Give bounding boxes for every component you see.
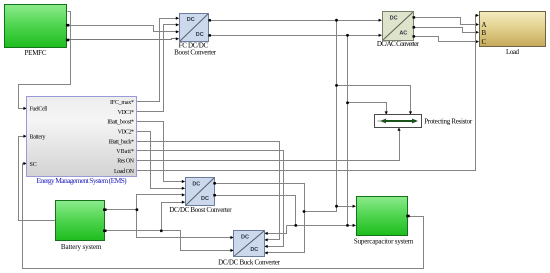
svg-text:B: B xyxy=(482,29,487,37)
wire EMS IBatt_boost* to DC/DC Boost port 1 xyxy=(137,122,184,182)
svg-text:AC: AC xyxy=(399,31,407,37)
svg-text:Protecting Resistor: Protecting Resistor xyxy=(424,118,473,126)
wire EMS VDC2* to DC/DC Boost port 2 xyxy=(137,132,184,189)
svg-text:DC/DC Buck Converter: DC/DC Buck Converter xyxy=(218,259,281,267)
wire PEMFC - output to FC converter port 4 xyxy=(68,39,178,40)
junction node bus + to resistor branch xyxy=(335,84,338,87)
wire DC bus + to Protecting Resistor top port 2 xyxy=(337,86,411,114)
block Battery system xyxy=(56,201,107,251)
svg-text:DC: DC xyxy=(250,247,258,253)
svg-text:Battery: Battery xyxy=(30,135,46,141)
wire DC/AC out A to Load A xyxy=(414,18,478,25)
junction node bus + at supercap in1 xyxy=(335,205,338,208)
wire PEMFC m output to EMS FuelCell input xyxy=(19,12,71,109)
svg-text:DC/AC Converter: DC/AC Converter xyxy=(377,40,420,48)
wire Boost out2 to DC bus - and Buck right port 1 xyxy=(215,196,296,226)
junction node battery - branch xyxy=(160,229,163,232)
wire EMS Res ON to Protecting Resistor bottom port xyxy=(137,130,400,161)
junction node on FC out2 at bus - tap xyxy=(346,34,349,37)
svg-text:VBatt*: VBatt* xyxy=(116,149,134,155)
svg-text:Supercapacitor system: Supercapacitor system xyxy=(354,238,414,246)
wire EMS IFC_max* to FC converter port 1 xyxy=(137,19,178,102)
block DC/DC Buck Converter U5 xyxy=(218,231,281,267)
junction node bus - at supercap in2 xyxy=(346,224,349,227)
block Supercapacitor system xyxy=(354,197,414,246)
svg-text:A: A xyxy=(482,21,487,29)
block DC/DC Boost Converter U4 xyxy=(169,178,232,215)
svg-text:IBatt_boost*: IBatt_boost* xyxy=(107,120,134,126)
block FC DC/DC Boost Converter U2 xyxy=(174,14,217,57)
block Energy Management System (EMS) U1 xyxy=(27,97,137,186)
svg-text:Boost Converter: Boost Converter xyxy=(174,49,217,57)
junction node boost out2 branch xyxy=(294,224,297,227)
svg-text:PEMFC: PEMFC xyxy=(25,49,47,57)
wire DC bus - to Protecting Resistor top port 1 xyxy=(348,103,387,114)
block DC/AC Converter U3 xyxy=(377,12,420,49)
wire EMS IBatt_buck* to DC/DC Buck right port 2 xyxy=(137,142,280,240)
svg-text:DC: DC xyxy=(192,182,200,188)
wire DC/AC out B to Load B xyxy=(414,28,478,33)
svg-text:VDC1*: VDC1* xyxy=(118,110,134,116)
svg-text:IBatt_buck*: IBatt_buck* xyxy=(109,139,134,145)
svg-text:Battery system: Battery system xyxy=(61,243,102,251)
svg-text:FuelCell: FuelCell xyxy=(30,107,48,113)
wire EMS Load ON to Load breaker input xyxy=(137,16,478,171)
svg-text:Res ON: Res ON xyxy=(117,159,134,165)
wire PEMFC + output to FC converter port 3 xyxy=(68,26,178,32)
wire DC bus - to Supercapacitor in2 xyxy=(348,225,355,227)
svg-text:C: C xyxy=(482,38,487,46)
wire Supercapacitor m output to EMS SC input xyxy=(23,164,424,269)
wire DC bus + to Supercapacitor in1 xyxy=(337,206,355,208)
svg-text:DC/DC Boost Converter: DC/DC Boost Converter xyxy=(169,206,232,214)
block Protecting Resistor R1 xyxy=(375,115,473,128)
wire FC converter out2 to DC/AC converter in2 (DC bus -) xyxy=(210,35,381,37)
svg-text:DC: DC xyxy=(187,17,195,23)
svg-text:DC: DC xyxy=(201,196,209,202)
wire Battery + output to Boost port 3 and Buck left port 1 xyxy=(105,209,137,211)
svg-text:Load ON: Load ON xyxy=(114,169,135,175)
wire EMS VDC1* to FC converter port 2 xyxy=(137,25,178,112)
wire FC converter out1 to DC/AC converter in1 (DC bus +) xyxy=(210,20,381,22)
svg-text:DC: DC xyxy=(196,32,204,38)
svg-text:DC: DC xyxy=(241,235,249,241)
wire DC bus - vertical drop xyxy=(347,36,349,226)
wire Battery m output to EMS Battery input xyxy=(19,137,57,221)
junction node boost out1 branch xyxy=(303,210,306,213)
svg-text:Energy Management System (EMS): Energy Management System (EMS) xyxy=(36,176,127,185)
wire Boost out1 to DC bus + and Buck right port 4 xyxy=(215,184,305,253)
block Load xyxy=(480,12,546,57)
junction node bus - to resistor branch xyxy=(346,101,349,104)
wire DC bus + vertical drop xyxy=(336,21,338,212)
wire EMS VBatt* to DC/DC Buck right port 3 xyxy=(137,151,284,247)
svg-text:VDC2*: VDC2* xyxy=(118,130,134,136)
svg-text:SC: SC xyxy=(30,162,37,168)
wire DC/AC out C to Load C xyxy=(414,37,478,42)
junction node battery + branch xyxy=(136,208,139,211)
svg-text:Load: Load xyxy=(506,48,520,56)
junction node on FC out1 at bus + tap xyxy=(335,19,338,22)
block PEMFC xyxy=(5,5,70,58)
svg-text:DC: DC xyxy=(390,16,398,22)
svg-text:IFC_max*: IFC_max* xyxy=(110,100,134,106)
wire Battery - output to Boost port 4 and Buck left port 2 xyxy=(105,230,162,232)
